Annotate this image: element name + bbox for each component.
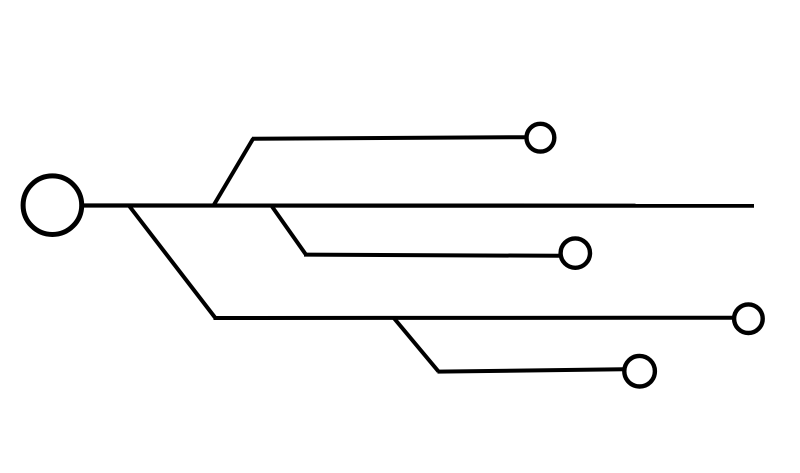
node E1 (branch B1 end circle) xyxy=(527,124,555,152)
node E4 (branch B4 end circle) xyxy=(624,356,655,387)
wire branch B3 diagonal drop xyxy=(129,206,215,318)
node E2 (branch B2 end circle) xyxy=(561,238,590,267)
wire branch B2 diagonal drop xyxy=(272,207,306,255)
wire branch B4 diagonal drop xyxy=(394,318,439,372)
wire branch B1 horizontal xyxy=(252,137,525,139)
node E3 (branch B3 end circle) xyxy=(734,304,763,333)
wire branch B3 horizontal xyxy=(214,316,733,320)
node T0 (large terminal circle) xyxy=(23,176,82,235)
wire branch B1 diagonal riser xyxy=(214,139,254,206)
wire main line xyxy=(84,203,754,207)
wire branch B2 horizontal xyxy=(304,255,559,256)
wire branch B4 horizontal xyxy=(438,369,624,371)
